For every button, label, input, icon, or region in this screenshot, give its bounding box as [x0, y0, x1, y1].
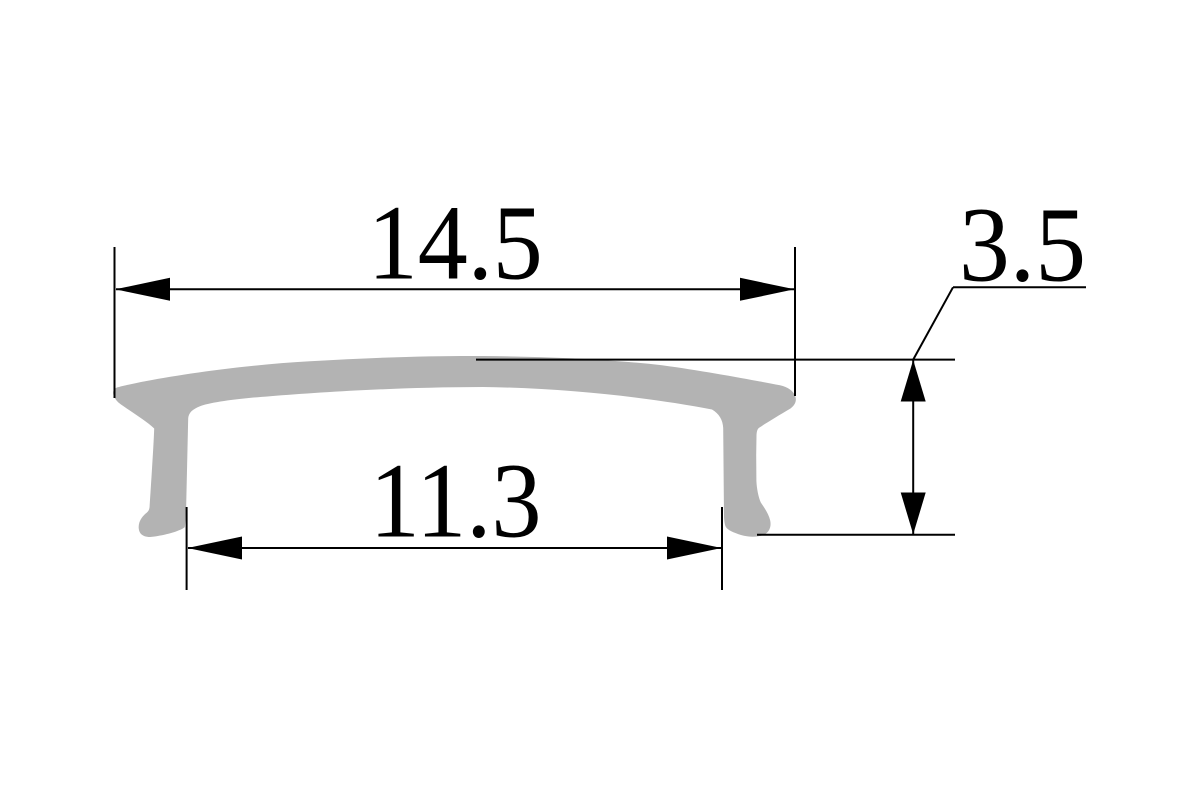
14.5 right extension line [794, 247, 796, 396]
3.5 leader horizontal line [953, 286, 1086, 288]
14.5 right arrowhead [740, 278, 795, 301]
3.5 vertical dimension line [912, 360, 914, 535]
svg-text:3.5: 3.5 [959, 187, 1086, 305]
3.5 bottom reference line (foot bottom level) [757, 534, 955, 536]
11.3 dimension line [188, 547, 721, 549]
3.5 leader diagonal line [913, 287, 953, 359]
14.5 left extension line [114, 247, 116, 398]
svg-text:11.3: 11.3 [370, 443, 542, 561]
svg-text:14.5: 14.5 [368, 185, 543, 303]
11.3 right extension line [721, 507, 723, 590]
11.3 right arrowhead [667, 537, 722, 560]
3.5 top reference line (top surface level) [476, 359, 955, 361]
3.5 up arrowhead [901, 360, 926, 402]
14.5 left arrowhead [116, 278, 171, 301]
3.5 down arrowhead [901, 493, 926, 535]
11.3 left arrowhead [188, 537, 243, 560]
14.5 dimension line [116, 288, 794, 290]
11.3 left extension line [186, 507, 188, 590]
profile cross-section (grey extrusion body) [113, 356, 796, 537]
